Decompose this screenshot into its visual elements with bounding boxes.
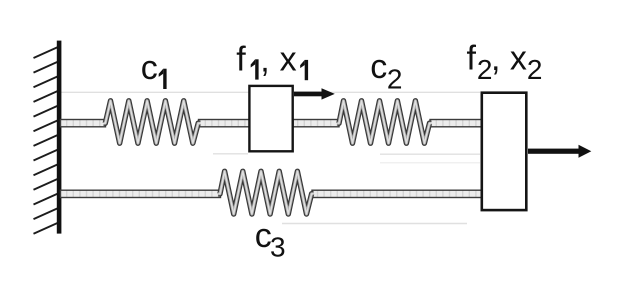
svg-text:3: 3 [270,232,286,263]
rod: spring c2 to mass 2 [430,120,482,127]
spring c2 [337,101,431,143]
spring c3 [218,171,313,214]
svg-text:,: , [491,40,500,78]
rod: wall to spring c1 [61,120,106,127]
svg-text:,: , [260,41,269,79]
wall hatching [34,47,59,234]
wall [57,41,62,234]
svg-text:2: 2 [387,64,403,95]
rod: mass 1 to spring c2 [293,120,339,127]
spring c1 [104,101,201,143]
label f1, x1 [236,40,308,80]
label c1 [141,49,167,89]
svg-text:c: c [370,48,387,86]
faint artifact line y=154 left [213,153,248,155]
mass 1 (f1) [249,86,292,151]
faint artifact line y=163 [380,162,480,164]
label c2 [370,48,402,95]
svg-text:f: f [467,39,477,77]
svg-text:2: 2 [527,54,543,85]
rod: wall to spring c3 [61,190,221,197]
label c3 [255,217,286,262]
svg-text:x: x [280,40,297,78]
arrow x2 [528,145,591,158]
rod: spring c3 to mass 2 [312,190,482,197]
label f2, x2 [467,39,543,85]
faint artifact line y=223 [282,223,467,225]
rod: spring c1 to mass 1 [199,120,250,127]
faint artifact line y=92 [61,91,480,93]
svg-text:c: c [141,49,158,87]
svg-text:f: f [236,40,246,78]
svg-text:x: x [510,39,527,77]
faint artifact line y=154 right [380,153,480,155]
mass 2 (f2) [482,93,527,210]
arrow x1 [294,88,335,99]
